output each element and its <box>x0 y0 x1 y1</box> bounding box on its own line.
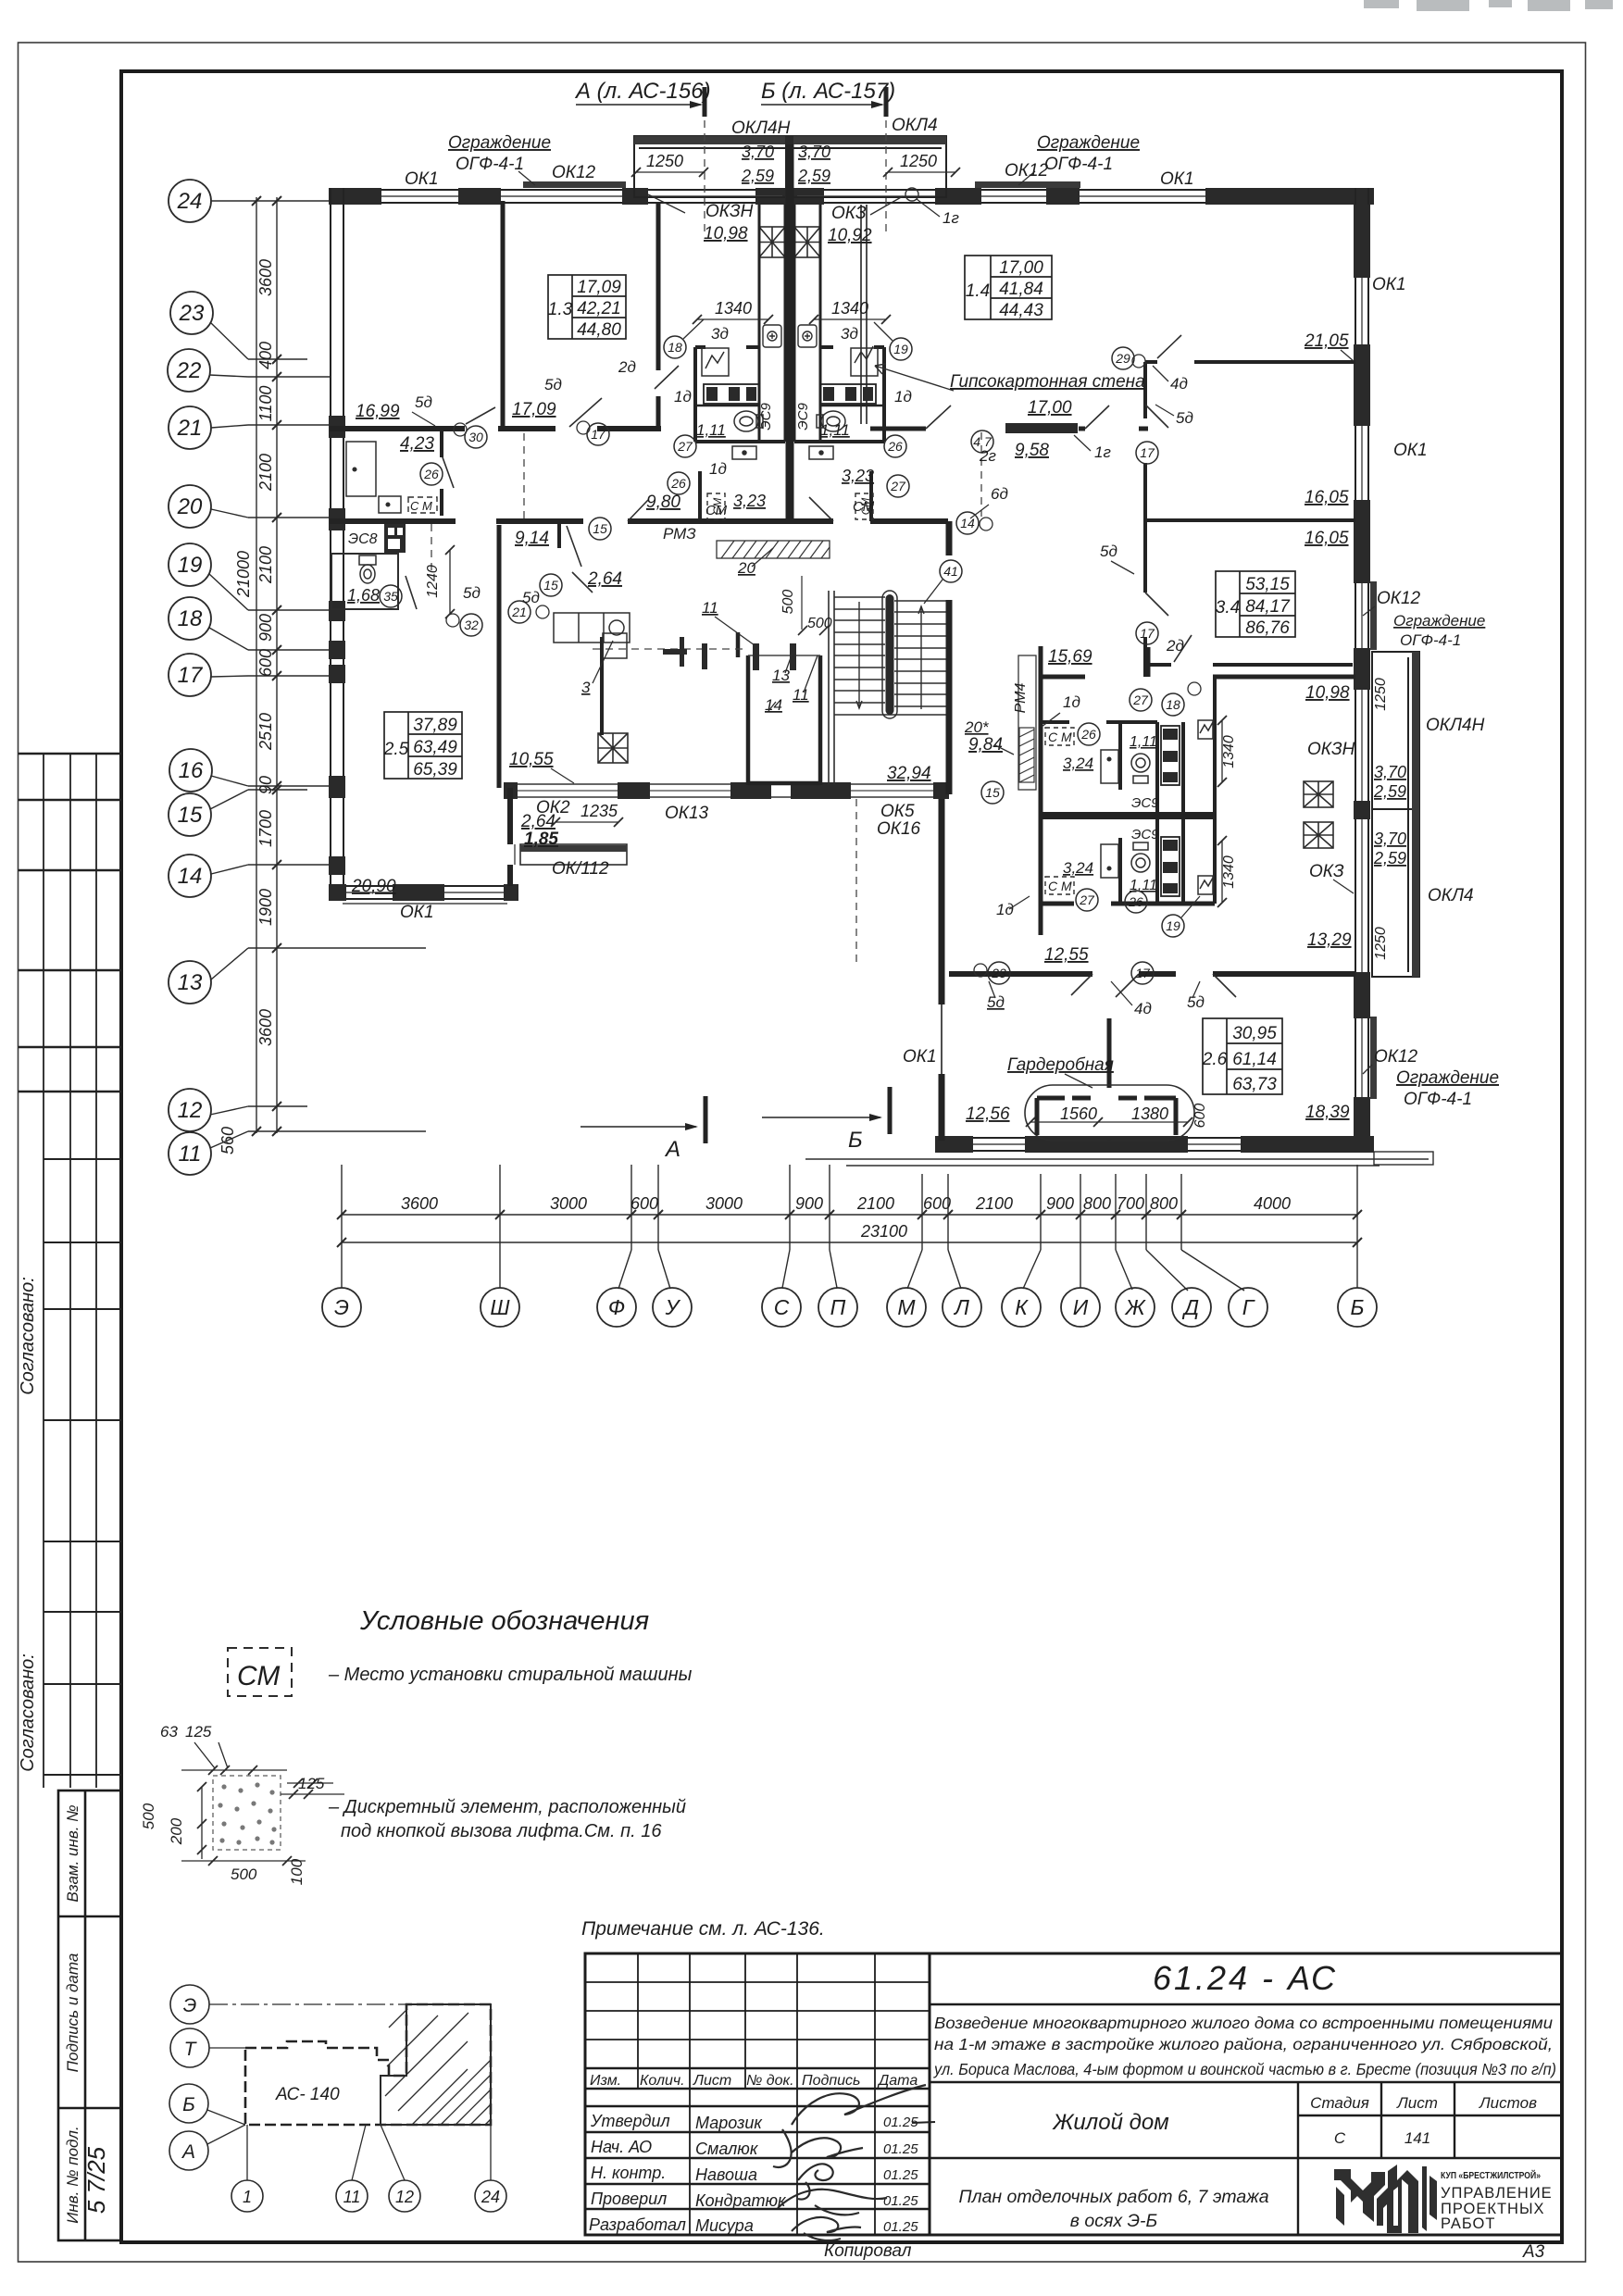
wall axis21 left <box>330 426 661 431</box>
discrete element dotted square <box>213 1776 281 1850</box>
svg-text:125: 125 <box>298 1775 325 1792</box>
svg-text:А: А <box>181 2141 195 2163</box>
left dimension chain lines <box>256 197 277 1133</box>
balcony center divider <box>785 136 793 201</box>
fridge and counter in kitchen 4,23 <box>346 442 401 513</box>
wall axis21 right <box>1145 360 1355 364</box>
elevator shaft <box>738 632 820 785</box>
svg-text:12: 12 <box>395 2188 414 2206</box>
wall 17,00 / 9,58 <box>870 427 1148 431</box>
left exterior wall band <box>331 188 343 899</box>
left axis circles <box>168 180 213 1175</box>
svg-text:СМ: СМ <box>237 1661 280 1691</box>
callouts right wing top <box>1112 347 1134 369</box>
key plan leaders <box>207 2048 491 2180</box>
mid vertical wall of right wing <box>939 799 945 1141</box>
room table 2.6 <box>1203 1018 1282 1094</box>
CM dashed boxes right wing <box>1045 728 1074 894</box>
toilet left <box>359 555 376 583</box>
svg-text:200: 200 <box>168 1817 185 1845</box>
left wall pilaster piers <box>329 416 345 875</box>
wall 16,05 right <box>1145 518 1355 522</box>
room table 1.4 <box>965 256 1052 319</box>
company logo emblem <box>1334 2165 1437 2233</box>
left axis leaders <box>209 201 248 1148</box>
left extension ticks from wall <box>248 201 426 1131</box>
svg-text:Примечание см. л. АС-136.: Примечание см. л. АС-136. <box>581 1918 825 1940</box>
callouts 27 26 mid <box>674 435 696 457</box>
CM dashed boxes center <box>707 493 873 519</box>
right exterior wall band <box>1355 188 1368 1151</box>
right OK12 railing marks <box>1370 581 1377 1099</box>
wall axis13 <box>949 971 1355 977</box>
signature rows texts <box>589 2112 787 2235</box>
balcony OKL12 <box>520 844 627 865</box>
kitchen 4,23 right wall + door <box>440 431 443 516</box>
room table 3.4 <box>1216 571 1295 637</box>
balcony top hatched band <box>634 136 946 144</box>
room table 2.5 <box>384 712 462 779</box>
bottom dim slash ticks <box>337 1210 1362 1247</box>
stair core right wall <box>946 600 953 794</box>
key plan bottom circles <box>231 2180 506 2212</box>
top exterior wall band <box>329 190 1374 203</box>
svg-text:24: 24 <box>481 2188 500 2206</box>
svg-text:Условные обозначения: Условные обозначения <box>359 1606 649 1636</box>
stove symbols in shafts <box>763 325 817 347</box>
washbasins center <box>732 446 833 459</box>
bottom axis leaders <box>342 1250 1357 1291</box>
top balcony OKL4N block <box>634 136 946 197</box>
dash after first date <box>912 2122 935 2123</box>
svg-text:1: 1 <box>243 2188 252 2206</box>
dashed lines misc <box>431 120 981 963</box>
hatched strip PM4 <box>1018 655 1036 790</box>
section mark A top <box>576 87 705 117</box>
bath cluster outer walls <box>695 347 884 521</box>
svg-text:Т: Т <box>184 2039 198 2060</box>
svg-text:500: 500 <box>140 1803 157 1829</box>
bottom axis letters <box>334 1295 1364 1319</box>
ESH8 dark shaft box <box>384 524 406 553</box>
left axis circle numbers <box>176 189 205 1167</box>
section mark B top <box>761 87 886 117</box>
stair arrows <box>856 602 924 709</box>
bottom axis circles <box>322 1288 1377 1327</box>
svg-text:63: 63 <box>160 1723 178 1741</box>
stage table <box>930 2082 1562 2235</box>
top railing bands OK12 <box>523 181 1080 188</box>
right cluster fixtures upper <box>1101 720 1213 783</box>
svg-text:под кнопкой вызова лифта.См. п: под кнопкой вызова лифта.См. п. 16 <box>341 1821 662 1841</box>
bottom extension verticals <box>342 1165 1357 1250</box>
key plan hatched wing <box>381 2004 491 2125</box>
top wall solid piers <box>329 188 1374 205</box>
bottom margin stamp block <box>58 1791 121 2240</box>
right rooms vertical wall x1237 <box>1143 362 1147 677</box>
canopy lines below right wing <box>805 1159 1429 1166</box>
left dim slash ticks <box>252 196 281 1136</box>
lower-left wing right wall <box>507 788 513 844</box>
bottom-left exterior wall <box>329 886 518 899</box>
svg-text:11: 11 <box>343 2188 361 2206</box>
toilets center <box>734 411 845 431</box>
CM dashed symbol <box>228 1648 292 1696</box>
scan artifact gray blocks top right <box>1364 0 1613 11</box>
axis13 area labels <box>988 962 1010 984</box>
top-center bath cluster vent squares <box>759 227 820 257</box>
title block left table lines <box>585 1953 930 2235</box>
bottom-right exterior wall <box>935 1138 1374 1151</box>
kitchen zigzag boxes <box>702 346 878 376</box>
project description <box>933 2014 1556 2078</box>
misc right texts 16,05 etc already; 21,05 leader <box>1341 350 1354 361</box>
vent cross squares right <box>1304 781 1333 848</box>
plasterboard wall <box>861 205 867 424</box>
bottom dimension texts <box>401 1194 1291 1241</box>
callout 41 <box>940 560 962 582</box>
stair flights <box>829 591 946 785</box>
right wing bath cluster <box>1041 646 1355 935</box>
storage room 3 walls <box>600 637 604 735</box>
ramp hatch PM3 <box>717 541 830 558</box>
key plan building outline dashed <box>245 2004 491 2125</box>
key plan axis dash-dot line <box>209 2003 491 2005</box>
discrete element dims <box>181 1742 344 1865</box>
left margin grid partial horizontals <box>44 1159 121 1775</box>
wardrobe divider wall <box>1107 1018 1112 1141</box>
wardrobe dim line <box>1026 1117 1192 1127</box>
top wall window glazing lines <box>381 195 1205 197</box>
key plan axis circles left <box>169 1985 209 2170</box>
stair central rail <box>886 594 894 715</box>
inter-apartment center wall <box>786 144 794 521</box>
wall over bath cluster right wing <box>1149 663 1353 667</box>
svg-text:АС- 140: АС- 140 <box>275 2085 340 2104</box>
right wall piers <box>1354 205 1370 1151</box>
vestibule wall x539 <box>497 525 502 788</box>
door leaf diagonals <box>466 335 1236 997</box>
svg-text:Э: Э <box>183 1995 197 2016</box>
bottom dimension chain lines <box>342 1215 1357 1242</box>
door-width markers hall <box>663 637 707 669</box>
right wall window glazing lines <box>1361 278 1363 1097</box>
svg-text:– Дискретный элемент, располож: – Дискретный элемент, расположенный <box>328 1797 686 1817</box>
section mark B bottom <box>762 1087 890 1134</box>
callout 30 17 <box>465 426 487 448</box>
kitchen row in storage room 3 <box>554 613 630 643</box>
wall x543 room1.3 left <box>501 201 506 429</box>
left margin verticals <box>44 754 96 1788</box>
svg-text:Б: Б <box>182 2094 195 2115</box>
signature squiggles <box>773 2085 926 2240</box>
right cluster fixtures lower <box>1101 842 1213 894</box>
left margin grid full-width horizontals <box>19 754 122 1092</box>
vent cross square left-mid <box>598 733 628 763</box>
svg-text:100: 100 <box>288 1858 306 1885</box>
title block outer box <box>585 1953 1562 2235</box>
section mark A bottom <box>581 1096 705 1143</box>
header row texts <box>590 2073 918 2089</box>
svg-text:125: 125 <box>185 1723 212 1741</box>
left dimension texts rotated <box>218 259 275 1154</box>
callouts 18 19 <box>664 336 686 358</box>
bath cluster shaft walls <box>759 205 820 442</box>
svg-text:500: 500 <box>231 1865 257 1883</box>
cabinet rows <box>704 384 876 404</box>
corridor upper wall axis 20 <box>330 518 948 524</box>
elevator door posts <box>753 643 796 670</box>
right balconies OKL4N / OKL4 <box>1372 652 1419 977</box>
room table 1.3 <box>548 275 626 339</box>
wardrobe oval <box>1025 1085 1194 1141</box>
cabinet stacks right wing <box>1161 726 1180 896</box>
corridor lower wall <box>504 784 949 797</box>
left apartment bathroom <box>331 554 398 609</box>
wall x711 room1.3 right <box>656 203 661 430</box>
svg-text:– Место установки стиральной м: – Место установки стиральной машины <box>328 1665 693 1685</box>
